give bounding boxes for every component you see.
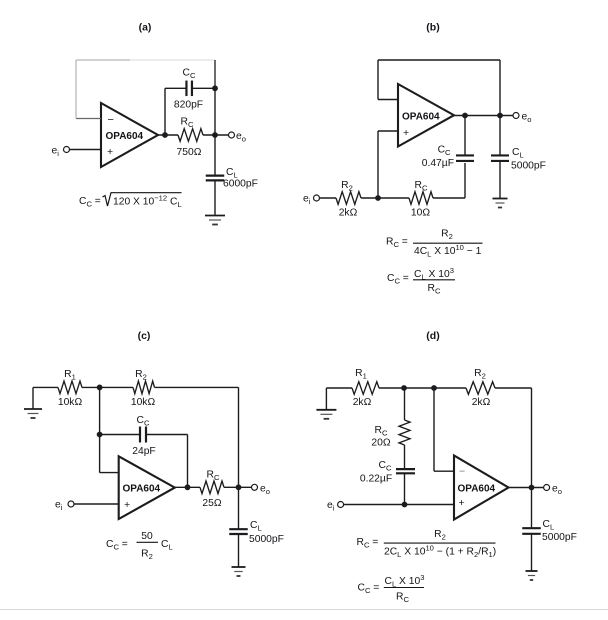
output terminal eo (544, 485, 550, 491)
wire eo node down to CL (499, 116, 501, 156)
ground (d output) (526, 570, 538, 572)
wire right column CC to eo node (214, 88, 216, 135)
resistor RC (200, 481, 224, 494)
wire node to RC (378, 197, 409, 199)
svg-text:+: + (107, 146, 113, 158)
svg-text:5000pF: 5000pF (249, 534, 284, 545)
wire U2 - input (378, 99, 398, 101)
wire CL to ground (499, 161, 501, 199)
svg-text:(d): (d) (426, 330, 439, 342)
resistor R2 (133, 381, 155, 394)
wire CC node down to - input (99, 435, 101, 473)
wire feedback node down to - input (433, 388, 435, 471)
feedback wire top (378, 59, 500, 61)
node CC / feedback junction (212, 85, 218, 91)
wire U3 output (175, 486, 200, 488)
node CC junction (97, 432, 103, 438)
output terminal eo (252, 484, 258, 490)
op-amp U4 OPA604 (454, 456, 509, 520)
feedback wire left vertical (377, 60, 379, 100)
node U1 output junction (162, 132, 168, 138)
wire CC to output wire (464, 116, 466, 156)
resistor RC (vertical) (399, 420, 410, 445)
svg-text:+: + (124, 499, 130, 511)
node RC branch junction (401, 385, 407, 391)
svg-text:2kΩ: 2kΩ (339, 208, 358, 219)
resistor RC (178, 129, 203, 142)
node output junction (462, 113, 468, 119)
resistor R1 (352, 382, 379, 395)
op-amp U1 OPA604 (101, 103, 158, 167)
op-amp U2 OPA604 (398, 84, 454, 147)
wire right column top (214, 60, 216, 88)
svg-text:6000pF: 6000pF (223, 179, 258, 190)
wire CL to ground (238, 534, 240, 567)
wire right column down to eo node (238, 387, 240, 487)
output terminal eo (513, 113, 519, 119)
wire CC column down to output node (187, 435, 189, 488)
svg-text:120 X 10−12 CL: 120 X 10−12 CL (113, 194, 182, 210)
resistor R2 (336, 192, 361, 205)
wire R2 to node (361, 197, 378, 199)
wire output node up to CC (164, 88, 166, 135)
resistor R2 (466, 382, 495, 395)
svg-text:(a): (a) (139, 22, 152, 34)
ground (d input) (325, 388, 327, 410)
ground (c input) (32, 387, 34, 409)
node eo junction (497, 113, 503, 119)
wire gnd to R1 (326, 387, 352, 389)
node output junction (185, 484, 191, 490)
wire U2 + input (378, 130, 398, 132)
wire R1 to nodes (379, 387, 466, 389)
capacitor CL (491, 154, 509, 156)
wire CC right plate to right column (192, 87, 215, 89)
wire ei to R2 (320, 197, 337, 199)
wire ei to U4 + input (344, 504, 454, 506)
svg-text:−: − (459, 466, 465, 478)
svg-text:5000pF: 5000pF (542, 532, 577, 543)
svg-text:2kΩ: 2kΩ (353, 397, 372, 408)
wire RC to output node (203, 134, 229, 136)
wire RC to CC (404, 445, 406, 469)
svg-text:CL X 103: CL X 103 (385, 573, 425, 589)
svg-text:24pF: 24pF (132, 446, 155, 457)
svg-text:(b): (b) (426, 22, 439, 34)
wire U1 - input (76, 118, 101, 120)
node eo junction (212, 132, 218, 138)
capacitor CL (206, 175, 225, 177)
node input junction (375, 195, 381, 201)
wire RC to CC branch (433, 197, 465, 199)
svg-text:2kΩ: 2kΩ (472, 397, 491, 408)
svg-text:OPA604: OPA604 (106, 131, 144, 142)
wire ei to U3 + input (74, 503, 119, 505)
capacitor CC (456, 154, 474, 156)
svg-text:20Ω: 20Ω (371, 438, 390, 449)
wire U1 output to node (158, 134, 178, 136)
capacitor CC (139, 427, 141, 443)
resistor RC (409, 192, 433, 205)
feedback wire (top horizontal, faint) (76, 59, 130, 61)
wire CL to ground (531, 534, 533, 571)
node feedback branch junction (431, 385, 437, 391)
svg-text:OPA604: OPA604 (123, 484, 161, 495)
node feedback junction (97, 385, 103, 391)
svg-text:−: − (108, 114, 114, 126)
wire eo node down to CL (238, 487, 240, 529)
svg-text:+: + (403, 127, 409, 139)
wire right column down to eo node (531, 388, 533, 488)
wire CC down to input wire (404, 474, 406, 505)
svg-text:OPA604: OPA604 (458, 484, 496, 495)
svg-text:750Ω: 750Ω (177, 147, 202, 158)
svg-text:0.22µF: 0.22µF (360, 474, 392, 485)
svg-text:10kΩ: 10kΩ (58, 397, 83, 408)
op-amp U3 OPA604 (119, 456, 175, 519)
wire RC to eo (224, 486, 252, 488)
wire R2 to right column (155, 386, 239, 388)
wire gnd to R1 (33, 386, 58, 388)
wire CC branch up (464, 163, 466, 198)
svg-text:820pF: 820pF (174, 100, 203, 111)
wire - input (434, 470, 454, 472)
wire eo node down to CL (214, 135, 216, 176)
svg-text:10Ω: 10Ω (411, 208, 430, 219)
output terminal eo (229, 132, 235, 138)
svg-text:10kΩ: 10kΩ (131, 397, 156, 408)
capacitor CL (229, 528, 248, 530)
wire R2 to right column (495, 387, 532, 389)
wire U2 output (454, 115, 513, 117)
page footer rule (0, 609, 608, 611)
svg-text:4CL X 1010 − 1: 4CL X 1010 − 1 (414, 243, 482, 259)
capacitor CC (396, 468, 415, 470)
svg-text:5000pF: 5000pF (511, 161, 546, 172)
wire to CC left plate (165, 87, 187, 89)
node CC junction on input wire (402, 502, 408, 508)
wire - input (100, 472, 119, 474)
wire ei to U1 + input (70, 149, 102, 151)
ground (c output) (232, 566, 246, 568)
wire CC to output column (146, 434, 188, 436)
ground (b) (493, 198, 508, 200)
node eo junction (236, 484, 242, 490)
svg-text:25Ω: 25Ω (202, 498, 221, 509)
node eo junction (529, 485, 535, 491)
capacitor CL (522, 527, 541, 529)
wire CC node to CC (100, 434, 141, 436)
svg-text:2CL X 1010 − (1 + R2/R1): 2CL X 1010 − (1 + R2/R1) (384, 544, 496, 560)
svg-text:+: + (459, 497, 465, 509)
wire R1 to node (82, 386, 133, 388)
feedback wire right vertical (499, 60, 501, 116)
resistor R1 (58, 381, 82, 394)
svg-text:OPA604: OPA604 (402, 112, 440, 123)
wire + input down to input node (377, 131, 379, 198)
svg-text:0.47µF: 0.47µF (422, 158, 454, 169)
ground (a) (205, 215, 225, 217)
wire node down to RC (404, 388, 406, 420)
capacitor CC (185, 81, 187, 97)
wire eo node down to CL (531, 488, 533, 529)
wire CL to ground (214, 181, 216, 216)
wire node down to CC node (99, 387, 101, 434)
svg-text:CL X 103: CL X 103 (414, 266, 454, 282)
wire U4 output (509, 487, 544, 489)
feedback wire (left vertical, faint) (75, 60, 77, 119)
svg-text:(c): (c) (138, 330, 151, 342)
svg-text:50: 50 (141, 531, 153, 542)
